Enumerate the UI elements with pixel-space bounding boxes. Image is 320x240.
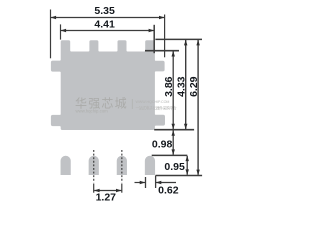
pin3 dashed centerline (121, 150, 123, 183)
svg-text:4.33: 4.33 (175, 76, 187, 97)
svg-text:一站式电子元器件采购平台: 一站式电子元器件采购平台 (136, 105, 177, 110)
5.35 left arrowhead (51, 16, 57, 19)
0.95 bottom arrowhead (186, 169, 189, 175)
0.95 top arrowhead (186, 156, 189, 162)
5.35 dimension line (51, 17, 165, 19)
1.27 left tick (93, 184, 95, 193)
1.27 dimension line (94, 190, 121, 192)
svg-text:www.hqchip.com: www.hqchip.com (76, 108, 109, 113)
package body (51, 40, 165, 130)
svg-text:4.41: 4.41 (94, 19, 115, 31)
5.35 left extension line (50, 10, 52, 59)
6.29 bottom arrowhead (196, 170, 199, 176)
pin-top extension line (152, 154, 188, 156)
0.62 left arrow tail (135, 182, 146, 184)
0.62 left arrowhead (140, 181, 146, 184)
1.27 right tick (121, 184, 123, 193)
1.27 left arrowhead (94, 189, 100, 192)
svg-text:0.98: 0.98 (152, 139, 173, 151)
4.41 dimension line (61, 30, 155, 32)
5.35 right extension line (164, 15, 166, 58)
6.29 dimension line (197, 40, 199, 175)
0.62 right arrowhead (156, 181, 162, 184)
pin 4 (145, 156, 155, 175)
3.86 dimension line (172, 51, 174, 129)
0.98 bottom arrowhead (172, 149, 175, 155)
svg-text:WWW.HQCHIP.COM: WWW.HQCHIP.COM (136, 100, 170, 104)
svg-text:5.35: 5.35 (94, 5, 115, 17)
svg-text:0.62: 0.62 (158, 184, 179, 196)
svg-text:0.95: 0.95 (164, 161, 185, 173)
watermark divider (131, 99, 133, 109)
0.95 dimension line (186, 156, 188, 175)
6.29 top arrowhead (196, 40, 199, 46)
0.62 left tick (145, 177, 147, 188)
1.27 right arrowhead (116, 189, 122, 192)
3.86 bottom arrowhead (172, 124, 175, 130)
4.33 top arrowhead (184, 40, 187, 46)
pin 3 (117, 156, 127, 175)
pin 1 (61, 156, 71, 175)
5.35 right arrowhead (159, 16, 165, 19)
bump-top reference line (155, 38, 202, 40)
3.86 top arrowhead (172, 51, 175, 57)
watermark right text (136, 100, 177, 111)
svg-text:3.86: 3.86 (163, 76, 175, 97)
4.41 left extension line (60, 24, 62, 39)
4.33 bottom arrowhead (184, 124, 187, 130)
pin-bottom extension line (156, 175, 203, 177)
4.41 right arrowhead (149, 29, 155, 32)
0.98 dimension line (172, 130, 174, 155)
pin2 dashed centerline (93, 150, 95, 183)
svg-text:6.29: 6.29 (188, 76, 200, 97)
watermark 华强芯城 (75, 97, 128, 114)
4.33 dimension line (185, 40, 187, 129)
4.41 left arrowhead (61, 29, 67, 32)
0.98 top arrowhead (172, 130, 175, 136)
0.62 right tick (155, 176, 157, 189)
4.41 right extension line (153, 25, 155, 53)
body-surface reference line (145, 50, 179, 52)
0.62 right arrow tail (156, 182, 176, 184)
svg-text:1.27: 1.27 (96, 191, 117, 203)
pin 2 (89, 156, 99, 175)
package outline drawing (mechanical dimension diagram) (0, 0, 258, 210)
body-bottom extension line (154, 129, 194, 131)
